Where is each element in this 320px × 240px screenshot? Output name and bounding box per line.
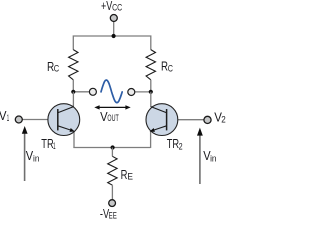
- Vout double arrow: [94, 105, 130, 109]
- junction: tail node: [111, 145, 115, 149]
- svg-text:C: C: [168, 63, 174, 73]
- wire: top supply rail: [73, 36, 151, 50]
- wire: emitter tail rail: [73, 147, 150, 149]
- junction: left collector node: [71, 90, 75, 94]
- terminal +Vcc: [110, 15, 117, 22]
- label RC2: [161, 60, 173, 74]
- svg-text:+V: +V: [101, 0, 113, 13]
- svg-text:2: 2: [221, 115, 226, 125]
- label V2: [214, 110, 226, 124]
- arrow Vin right: [197, 128, 203, 184]
- arrow Vin left: [22, 126, 28, 181]
- junction Vcc-rail: [112, 34, 116, 38]
- wire: V2 base wire: [167, 119, 204, 121]
- wire: right tap stub: [135, 91, 151, 93]
- svg-text:OUT: OUT: [107, 113, 119, 123]
- svg-text:TR: TR: [167, 137, 179, 151]
- wire: RC1 lower lead: [72, 80, 74, 92]
- resistor RC2: [146, 50, 155, 80]
- resistor RC1: [69, 50, 78, 80]
- terminal -Vee: [109, 200, 116, 207]
- svg-text:2: 2: [179, 141, 183, 151]
- wire: TR1 emitter drop: [73, 131, 75, 149]
- junction: right collector node: [149, 90, 153, 94]
- transistor TR2: [146, 104, 178, 136]
- wire: RE top lead: [111, 148, 113, 157]
- transistor TR1: [48, 104, 80, 136]
- terminal V2: [204, 116, 211, 123]
- terminal: left output tap: [89, 88, 96, 95]
- label Vin right: [203, 149, 216, 164]
- label -Vee: [100, 207, 117, 221]
- label +Vcc: [101, 0, 123, 13]
- label TR1: [41, 137, 55, 151]
- wire: V1 base wire: [23, 119, 58, 121]
- wire: RC2 lower lead: [150, 80, 152, 92]
- svg-text:EE: EE: [109, 211, 117, 221]
- wire: Vcc stub: [113, 22, 115, 36]
- svg-text:in: in: [33, 154, 39, 164]
- svg-text:1: 1: [53, 141, 56, 151]
- svg-text:C: C: [54, 64, 60, 74]
- resistor RE: [108, 156, 117, 185]
- svg-text:1: 1: [7, 113, 9, 123]
- label Vout: [100, 110, 119, 124]
- wire: TR1 collector drop: [72, 92, 74, 107]
- terminal V1: [15, 116, 22, 123]
- svg-text:CC: CC: [112, 3, 122, 13]
- label RE: [121, 168, 133, 182]
- svg-text:TR: TR: [41, 137, 53, 151]
- terminal: right output tap: [128, 89, 135, 96]
- wire: RE bottom lead: [111, 185, 113, 199]
- label Vin left: [26, 149, 40, 164]
- svg-text:R: R: [121, 168, 128, 182]
- label TR2: [167, 137, 183, 152]
- label V1: [0, 109, 9, 123]
- svg-text:E: E: [127, 172, 133, 182]
- svg-text:in: in: [210, 154, 216, 164]
- wire: TR2 emitter drop: [150, 131, 152, 149]
- sine wave Vout: [101, 80, 122, 103]
- wire: TR2 collector drop: [150, 92, 152, 107]
- label RC1: [47, 60, 60, 74]
- wire: left tap stub: [73, 91, 89, 93]
